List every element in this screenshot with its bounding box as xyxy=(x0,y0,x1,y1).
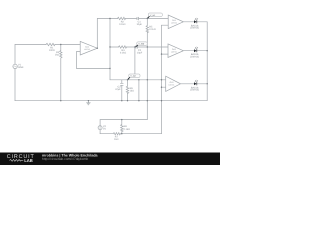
wire shunt branch xyxy=(60,45,62,101)
svg-text:http://circuitlab.com/c/7dq4wm: http://circuitlab.com/c/7dq4wmb xyxy=(42,157,88,161)
ground xyxy=(86,101,90,105)
junction H2 drop xyxy=(138,79,139,80)
wire OA4 output up xyxy=(96,19,98,49)
resistor R8 xyxy=(121,124,123,131)
junction bus/ground xyxy=(88,100,89,101)
svg-text:LM741: LM741 xyxy=(171,21,177,24)
wire OA3 - stub xyxy=(162,86,166,88)
voltage source V1 xyxy=(13,64,17,68)
resistor R2 xyxy=(118,17,126,19)
junction E/OA3 inv xyxy=(161,87,162,88)
svg-text:100Ω: 100Ω xyxy=(49,49,55,52)
capacitor C3 xyxy=(120,83,123,85)
junction A/feedback xyxy=(109,68,110,69)
junction T1/A xyxy=(109,18,110,19)
diode LED1 xyxy=(194,18,198,23)
svg-text:V_mid: V_mid xyxy=(138,43,145,46)
diode LED2 xyxy=(194,47,198,52)
capacitor C2 xyxy=(136,46,138,49)
resistor R3 xyxy=(119,46,127,48)
junction rail/R8 top xyxy=(121,119,122,120)
op-amp texts xyxy=(84,19,177,86)
svg-text:1kΩ: 1kΩ xyxy=(114,138,119,141)
junction bus/E xyxy=(161,100,162,101)
op-amp OA3 xyxy=(166,76,181,91)
wire OA2 - stub xyxy=(162,53,169,55)
svg-text:5V: 5V xyxy=(103,128,106,131)
voltage source V2 xyxy=(98,126,102,130)
resistor R6 xyxy=(126,86,128,93)
junction bus/R6 xyxy=(127,100,128,101)
junction bus/C3 xyxy=(121,100,122,101)
svg-text:LM741: LM741 xyxy=(169,83,175,86)
wire V2 bottom rail xyxy=(100,133,161,135)
op-amp OA4 feedback loop xyxy=(76,52,110,69)
op-amp OA1 xyxy=(168,15,183,29)
wire V1 bottom xyxy=(14,69,16,101)
wire V2 top rail xyxy=(100,119,147,121)
svg-text:(1N914): (1N914) xyxy=(190,56,199,59)
wire T2 row xyxy=(110,46,168,48)
svg-text:0.1kΩ: 0.1kΩ xyxy=(120,52,127,55)
junction bus/R4 xyxy=(60,100,61,101)
svg-text:LM741: LM741 xyxy=(84,48,90,51)
diode LED3 xyxy=(194,80,198,85)
svg-text:(1N914): (1N914) xyxy=(190,27,199,30)
svg-text:1kΩ: 1kΩ xyxy=(130,90,135,93)
wire T1 row xyxy=(97,18,168,20)
junction R1/R4 node xyxy=(60,44,61,45)
junction H2/E xyxy=(161,79,162,80)
junction out bus/OA2 xyxy=(207,50,208,51)
resistor R4 shunt xyxy=(60,51,62,59)
wire B vertical xyxy=(134,47,136,74)
svg-text:(1N914): (1N914) xyxy=(190,89,199,92)
wire main input row xyxy=(15,44,80,46)
svg-text:0.1kΩ: 0.1kΩ xyxy=(119,23,126,26)
wire output bus right xyxy=(206,22,208,101)
svg-text:LAB: LAB xyxy=(24,158,33,163)
junction OA4 output xyxy=(97,48,98,49)
wire V1 top xyxy=(14,45,16,65)
wire V2 stubs xyxy=(99,120,101,134)
svg-text:10µF: 10µF xyxy=(136,23,142,26)
svg-text:SINE: SINE xyxy=(18,66,24,69)
svg-text:V_out: V_out xyxy=(130,75,136,78)
node flag F3 xyxy=(127,74,140,80)
junction A/T2 xyxy=(109,46,110,47)
wire C3 branch xyxy=(121,80,123,101)
resistor R7 xyxy=(113,133,120,135)
junction H2/D xyxy=(147,79,148,80)
junction bus drop xyxy=(138,100,139,101)
wire OA1 - stub xyxy=(162,24,169,26)
footer bar xyxy=(0,153,220,166)
junction T1 flag node xyxy=(147,18,148,19)
junction out bus/OA3 xyxy=(207,83,208,84)
junction dots xyxy=(60,18,208,135)
capacitor C1 xyxy=(137,17,139,20)
junction rail/R8 bottom xyxy=(121,133,122,134)
wire OA2 output xyxy=(183,50,207,52)
op-amp OA2 xyxy=(168,44,183,58)
svg-text:47µF: 47µF xyxy=(115,88,121,91)
svg-text:0.1kΩ: 0.1kΩ xyxy=(149,28,156,31)
node flag F2 xyxy=(135,42,147,47)
op-amp OA4 xyxy=(80,41,97,55)
svg-text:V_in1: V_in1 xyxy=(150,14,156,17)
junction H2/R6 xyxy=(127,79,128,80)
junction T2/D xyxy=(147,46,148,47)
wire D vertical with R5 xyxy=(146,19,148,120)
resistor R5 xyxy=(146,26,148,33)
wire E vertical xyxy=(161,25,163,134)
svg-text:0.1kΩ: 0.1kΩ xyxy=(124,128,131,131)
wire R8 branch xyxy=(121,120,123,134)
junction T2 flag node xyxy=(134,46,135,47)
svg-text:10µF: 10µF xyxy=(137,52,143,55)
wire H2 row xyxy=(110,79,166,81)
labels xyxy=(49,21,199,142)
junction bus/D xyxy=(147,100,148,101)
resistor R1 xyxy=(46,43,55,45)
wire ground bus xyxy=(15,100,207,102)
wire A vertical xyxy=(109,19,111,80)
wire OA1 output xyxy=(183,21,207,23)
wire R6 branch xyxy=(127,80,129,101)
svg-text:LM741: LM741 xyxy=(171,50,177,53)
svg-text:1kΩ: 1kΩ xyxy=(55,53,60,56)
wire flag drop xyxy=(138,80,140,101)
logo resistor zigzag xyxy=(10,160,24,162)
wire OA3 output xyxy=(181,83,208,85)
junction E/OA2 inv xyxy=(161,53,162,54)
node flag F1 xyxy=(147,13,162,19)
footer bar xyxy=(0,153,220,166)
